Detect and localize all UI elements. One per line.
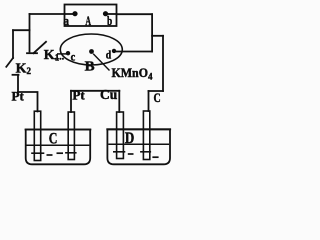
beaker C outline [26, 130, 91, 165]
dash in beaker D [128, 153, 134, 155]
dotted leader K1 to c [54, 58, 64, 60]
svg-text:A: A [85, 13, 91, 28]
wire to Pt1 [18, 92, 38, 112]
svg-text:c: c [71, 51, 76, 63]
wire far right vertical [162, 36, 164, 91]
wire b-stub [106, 13, 117, 15]
dash in beaker C [57, 152, 64, 154]
beaker D rim [106, 128, 171, 130]
wire K2 lower vertical [17, 75, 19, 92]
switch K2 seat [13, 74, 19, 76]
wire stub to c [57, 53, 68, 55]
wire Pt2 vertical [70, 91, 72, 112]
wire right vertical [151, 14, 153, 51]
leader line to KMnO4 [93, 54, 109, 71]
beaker D water line [108, 143, 169, 145]
beaker C water line [27, 144, 90, 146]
electrode Pt2 crossbar [65, 152, 77, 154]
svg-text:B: B [85, 60, 95, 75]
electrode Cu crossbar [113, 151, 125, 153]
wire branch right [152, 35, 163, 37]
electrode Pt2 [68, 112, 74, 160]
beaker C rim [25, 129, 92, 131]
ammeter box A [65, 5, 117, 27]
svg-text:Pt: Pt [12, 88, 25, 103]
svg-text:C: C [154, 90, 161, 105]
electrode Pt1 crossbar [31, 152, 44, 154]
switch K1 blade [34, 42, 47, 53]
svg-text:Cu: Cu [100, 87, 118, 102]
wire C electrode vertical [148, 91, 150, 111]
electrode Pt1 [34, 111, 40, 160]
svg-text:C: C [49, 131, 58, 148]
wire branch to K2 [13, 29, 30, 31]
terminal dot b [103, 11, 108, 16]
beaker D outline [107, 129, 170, 164]
svg-text:b: b [107, 13, 112, 28]
wire Pt2 to Cu [71, 90, 119, 92]
electrode C crossbar [140, 151, 151, 153]
electrode C [143, 111, 149, 160]
terminal dot a [72, 11, 77, 16]
svg-text:Pt: Pt [72, 88, 85, 103]
wire Cu vertical [118, 91, 120, 112]
petri dish B (ellipse) [60, 34, 122, 65]
drop dot B [89, 49, 94, 54]
wire d to right corner [114, 51, 152, 53]
wire left vertical [29, 14, 31, 52]
wire top-left [30, 13, 65, 15]
terminal dot d [112, 49, 116, 53]
dash in beaker C [47, 154, 53, 156]
svg-text:KMnO4: KMnO4 [112, 65, 154, 82]
wire K2 upper vertical [12, 30, 14, 58]
svg-text:D: D [125, 130, 134, 147]
dash in beaker D [152, 156, 158, 158]
wire bottom right [149, 90, 164, 92]
svg-text:a: a [63, 13, 69, 28]
wire b to right [117, 13, 153, 15]
electrode Cu [117, 112, 124, 159]
svg-text:d: d [106, 47, 112, 61]
switch K1 seat [27, 52, 37, 54]
wire a-stub [65, 13, 76, 15]
switch K2 blade [6, 58, 13, 67]
terminal dot c [66, 51, 70, 55]
